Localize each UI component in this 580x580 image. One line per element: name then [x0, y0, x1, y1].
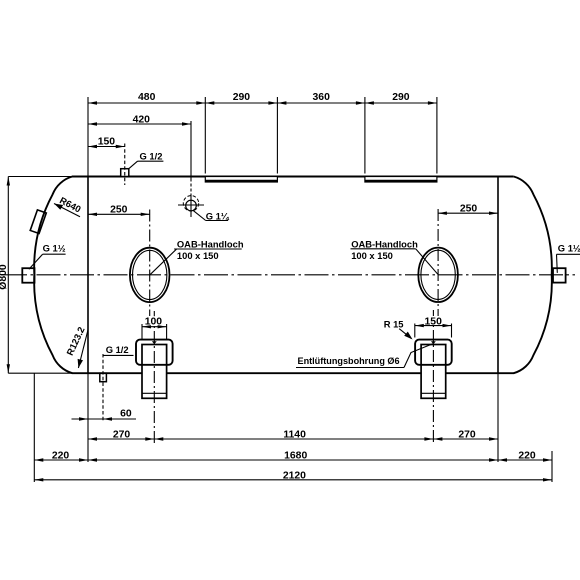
svg-text:Entlüftungsbohrung Ø6: Entlüftungsbohrung Ø6: [298, 356, 400, 366]
dim 60: [72, 409, 137, 421]
R 15 label: [384, 319, 413, 340]
svg-text:220: 220: [52, 450, 70, 461]
extension lines strip1: [204, 97, 206, 174]
svg-text:100 x 150: 100 x 150: [351, 250, 393, 261]
extension line right end bottom: [551, 451, 553, 482]
dim 250 right: [438, 203, 498, 215]
svg-text:290: 290: [233, 92, 251, 103]
right dished head: [514, 177, 552, 374]
bottom drain nozzle G 1/2: [100, 373, 107, 382]
svg-text:360: 360: [313, 92, 331, 103]
upper tilted nozzle on left head: [30, 210, 46, 234]
left leg saddle: [136, 340, 173, 365]
svg-text:150: 150: [425, 316, 443, 327]
dim 150 top: [88, 136, 125, 148]
R640 leader: [54, 194, 83, 216]
svg-text:OAB-Handloch: OAB-Handloch: [177, 238, 244, 249]
svg-text:R 15: R 15: [384, 319, 404, 330]
right leg saddle: [415, 340, 452, 365]
svg-text:250: 250: [110, 204, 128, 215]
svg-text:150: 150: [98, 136, 116, 147]
bottom drain centerline: [102, 354, 104, 422]
svg-text:100: 100: [145, 317, 163, 328]
mounting strip 2 on top: [365, 177, 437, 183]
right leg centerline: [432, 310, 434, 445]
mounting strip 1 on top: [205, 177, 277, 183]
left weld seam: [87, 177, 89, 374]
dim chain 480/290/360/290: [88, 92, 437, 105]
svg-text:G 1/2: G 1/2: [140, 151, 163, 162]
left leg centerline: [153, 311, 155, 443]
svg-text:60: 60: [120, 409, 132, 420]
left G 1 1/2 label: [29, 243, 66, 270]
svg-text:G 1½: G 1½: [558, 243, 580, 254]
left manhole inner ellipse: [133, 250, 167, 299]
G 1/2 top nozzle: [121, 169, 129, 177]
svg-text:OAB-Handloch: OAB-Handloch: [351, 238, 418, 249]
svg-text:100 x 150: 100 x 150: [177, 250, 219, 261]
dim 420: [88, 114, 191, 125]
svg-text:Ø800: Ø800: [0, 264, 9, 290]
svg-text:G 1/2: G 1/2: [106, 344, 129, 355]
extension line left seam top: [87, 97, 89, 177]
svg-text:G 1¼: G 1¼: [206, 210, 230, 221]
right manhole label OAB-Handloch: [351, 238, 439, 274]
svg-text:G 1½: G 1½: [43, 243, 66, 254]
svg-text:270: 270: [458, 430, 476, 441]
G 1/2 top label: [129, 151, 164, 169]
right axial nozzle G 1 1/2: [553, 268, 566, 282]
svg-text:1140: 1140: [283, 430, 306, 441]
right weld seam: [497, 177, 499, 374]
G 1 1/4 extension line from 420 dim: [190, 121, 192, 182]
left manhole OAB outer ellipse: [130, 248, 170, 302]
bottom G 1/2 label: [103, 344, 133, 355]
svg-text:480: 480: [138, 92, 156, 103]
G 1 1/4 label: [193, 210, 230, 221]
svg-text:2120: 2120: [283, 470, 306, 481]
right leg vent hole marker: [431, 341, 436, 344]
dim 220 / 1680 / 220: [34, 450, 552, 461]
left dished head: [34, 177, 72, 374]
dim 100 left leg: [142, 316, 167, 339]
right manhole inner ellipse: [421, 250, 455, 299]
svg-text:220: 220: [518, 450, 536, 461]
extension lines strip2: [364, 97, 366, 174]
main horizontal centerline: [3, 274, 575, 276]
left manhole vertical centerline: [149, 210, 151, 317]
left axial nozzle G 1 1/2: [22, 268, 34, 283]
left leg vent hole marker: [152, 341, 157, 344]
G 1 1/4 coupling on shell: [178, 194, 204, 218]
right manhole vertical centerline: [437, 209, 439, 316]
extension line left seam bottom: [87, 373, 89, 462]
svg-text:270: 270: [113, 430, 131, 441]
Entlueftungsbohrung label: [296, 344, 433, 368]
svg-text:420: 420: [133, 114, 151, 125]
left manhole label OAB-Handloch: [150, 238, 244, 274]
dim diameter 800: [0, 177, 10, 374]
G 1/2 top nozzle centerline: [124, 144, 126, 186]
extension line right seam bottom: [497, 373, 499, 462]
dim 250 left: [88, 204, 150, 216]
right manhole OAB outer ellipse: [418, 248, 458, 302]
extension line left end bottom: [33, 373, 35, 482]
dim 150 right leg: [415, 316, 452, 338]
dim 270 / 1140 / 270: [88, 430, 498, 441]
R123.2 leader: [64, 325, 88, 368]
dim 2120: [34, 470, 552, 481]
svg-text:290: 290: [392, 92, 410, 103]
right G 1 1/2 label: [557, 243, 580, 273]
svg-text:1680: 1680: [284, 450, 307, 461]
tank shell bottom line segments: [8, 372, 72, 374]
right leg pipe: [421, 345, 446, 399]
tank shell top line: [8, 176, 72, 178]
svg-text:250: 250: [460, 203, 478, 214]
left leg pipe: [142, 345, 167, 399]
